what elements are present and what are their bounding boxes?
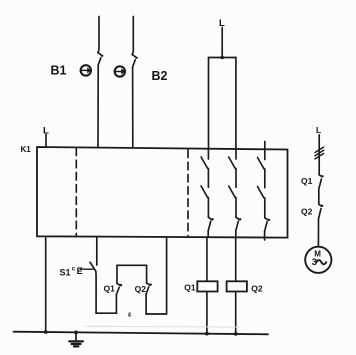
power feed header	[209, 57, 236, 59]
svg-text:E: E	[77, 266, 83, 276]
wire coil Q1 upper	[206, 237, 208, 281]
svg-text:Q1: Q1	[104, 283, 116, 293]
ground	[69, 331, 83, 347]
dashed separator 2	[187, 150, 189, 236]
svg-text:Q1: Q1	[301, 176, 313, 186]
wire coil Q2 lower	[235, 292, 237, 334]
switch S1	[80, 262, 96, 271]
wire Q1 aux leg	[115, 295, 117, 314]
svg-text:L: L	[43, 126, 49, 137]
svg-text:Q2: Q2	[301, 207, 313, 217]
pole 1 contacts	[201, 149, 214, 238]
svg-text:Q1: Q1	[184, 283, 196, 293]
svg-text:L: L	[316, 125, 321, 135]
wire U2 bottom	[146, 313, 167, 315]
junction dot left	[44, 330, 48, 334]
wire riser to K1	[166, 237, 168, 314]
wire L power drop	[221, 28, 223, 58]
wire to S1	[96, 237, 98, 265]
wire feed right leg	[235, 58, 237, 148]
junction dot coil Q2	[234, 332, 238, 336]
wire U1 bottom	[96, 312, 117, 314]
wire B1 to K1 block	[97, 65, 99, 147]
actuator circle B1	[81, 65, 92, 75]
wire staple left leg	[116, 265, 118, 283]
wire S1 lower	[95, 271, 97, 313]
contact Q1 aux	[116, 283, 122, 294]
wire L motor drop	[318, 135, 320, 175]
wire between Q1 Q2	[318, 189, 320, 205]
wire to motor	[317, 219, 319, 247]
motor M 3ph	[305, 247, 331, 273]
wire coil Q2 upper	[235, 237, 237, 281]
wire L control drop	[45, 135, 47, 148]
svg-text:K1: K1	[21, 145, 32, 154]
wire K1 output left	[45, 236, 47, 332]
svg-text:B2: B2	[152, 69, 168, 83]
pole 3 contacts	[258, 149, 271, 240]
wire feed left leg	[208, 58, 210, 148]
svg-text:ɛ: ɛ	[128, 312, 132, 319]
svg-text:Q2: Q2	[135, 284, 147, 294]
coil Q1	[197, 281, 217, 291]
contactor K1 block	[37, 147, 288, 238]
junction dot power feed	[220, 56, 224, 60]
svg-text:B1: B1	[51, 63, 67, 77]
dashed separator 1	[75, 148, 77, 236]
contact Q2 aux	[146, 283, 152, 294]
svg-text:3: 3	[312, 257, 317, 268]
contact Q1 main	[319, 175, 324, 189]
scan artifact line	[85, 325, 240, 328]
svg-text:L: L	[219, 18, 225, 29]
wire coil Q1 lower	[206, 292, 208, 334]
wire staple right leg	[146, 265, 148, 283]
wire B2 to K1 block	[132, 67, 134, 147]
actuator circle B2	[115, 66, 126, 76]
wire B1 drop	[98, 17, 99, 53]
three-phase hash	[315, 147, 324, 159]
wire B2 drop	[132, 17, 133, 55]
svg-text:S1: S1	[60, 267, 71, 277]
wire Q2 aux leg lower	[145, 294, 147, 314]
pole 2 contacts	[229, 149, 242, 238]
pole 3 stub	[264, 142, 266, 150]
staple top	[117, 264, 147, 266]
junction dot coil Q1	[205, 332, 209, 336]
switch B2	[132, 55, 137, 68]
coil Q2	[227, 281, 247, 291]
switch B1	[98, 53, 103, 66]
contact Q2 main	[319, 204, 324, 219]
bottom bus	[14, 332, 269, 335]
svg-text:Q2: Q2	[251, 284, 263, 294]
